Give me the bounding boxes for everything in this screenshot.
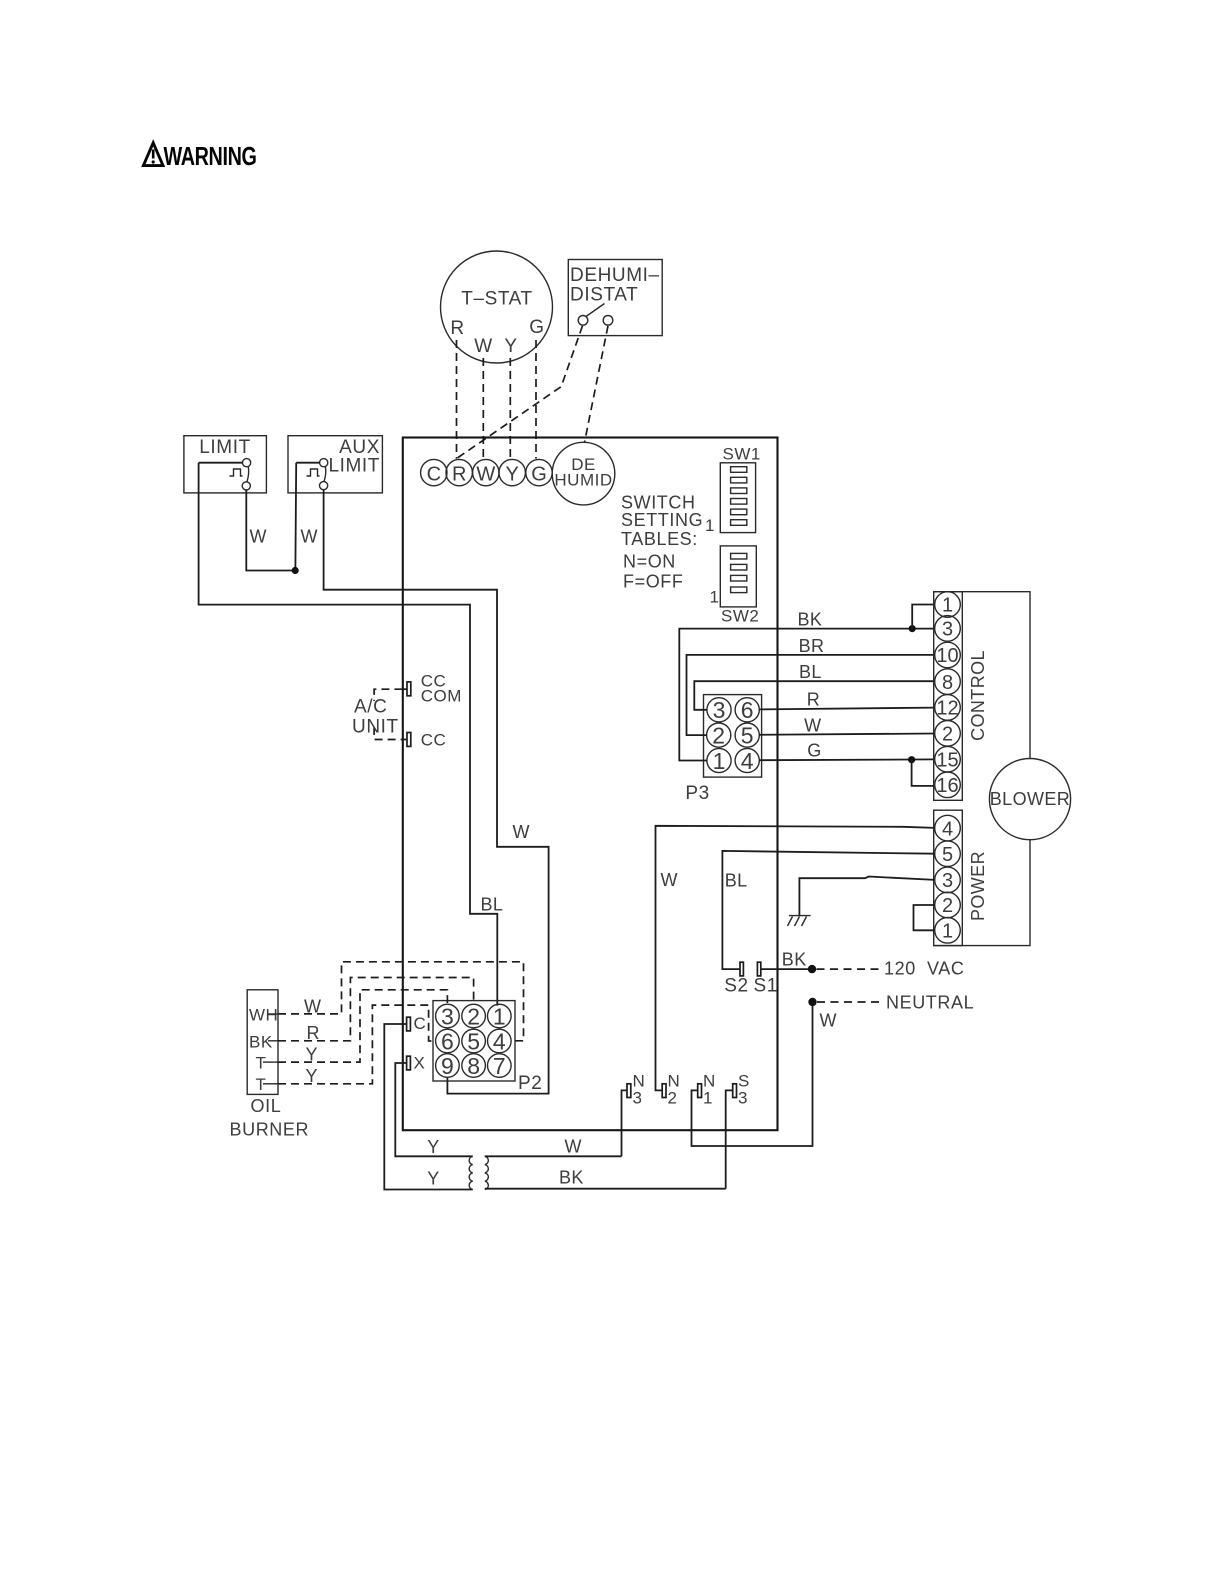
DE HUMID terminal [552,442,615,505]
svg-text:Y: Y [306,1066,318,1086]
thermostat T-STAT [441,251,553,363]
wire: T-STAT G to terminal G (dashed) [535,340,537,459]
svg-text:UNIT: UNIT [352,717,399,738]
terminal S1 [754,962,778,996]
svg-text:7: 7 [493,1053,506,1079]
switch SW1 [705,445,761,536]
svg-text:1: 1 [705,516,715,535]
wire BL: P3 pin 3 to CONTROL 8 [694,681,934,710]
svg-text:LIMIT: LIMIT [328,456,380,477]
wire WH-W: oil burner to P2 pin 4 (dashed) [278,962,524,1041]
svg-text:Y: Y [504,336,517,357]
svg-text:BR: BR [799,636,825,656]
wire: NEUTRAL node to terminal N1 [692,1006,813,1147]
wire R: P3 pin 6 to CONTROL 12 [759,708,934,710]
warning symbol [143,143,163,166]
svg-text:W: W [513,822,530,842]
wire: G junction to CONTROL 16 [912,760,935,786]
svg-text:BK: BK [782,949,807,969]
wire: BK junction to CONTROL 1 [912,605,935,629]
svg-text:BL: BL [481,895,504,915]
terminal strip POWER [934,810,988,945]
limit switch LIMIT [184,436,267,493]
terminal S2 [724,962,748,996]
terminal N2 [662,1072,680,1108]
switch SW2 [710,546,760,626]
svg-text:A/C: A/C [354,697,387,718]
svg-text:Y: Y [306,1045,318,1065]
svg-text:HUMID: HUMID [554,471,612,490]
svg-text:BL: BL [799,662,822,682]
svg-text:5: 5 [942,844,953,866]
wire BK: P3 pin 1 to CONTROL 3 [679,629,934,761]
transformer secondary winding [485,1156,489,1189]
svg-text:T–STAT: T–STAT [461,289,533,310]
wire: T-STAT W to terminal W (dashed) [482,358,484,459]
node NEUTRAL [808,998,816,1006]
terminal strip CONTROL [934,592,988,801]
wire: LIMIT upper contact down and right (W circuit) [199,463,498,1006]
svg-text:NEUTRAL: NEUTRAL [886,993,974,1013]
wire: terminal C to transformer primary bottom (Y) [384,1024,472,1190]
svg-text:WH: WH [249,1006,278,1025]
svg-text:BK: BK [798,609,823,629]
terminal W [473,459,499,485]
svg-text:BK: BK [559,1168,584,1188]
svg-text:S2: S2 [724,976,748,997]
svg-text:2: 2 [712,723,725,749]
aux limit switch AUX LIMIT [288,436,382,493]
svg-text:2: 2 [942,724,953,746]
terminal CC [403,731,446,750]
svg-text:G: G [531,463,547,485]
svg-text:8: 8 [467,1053,480,1079]
terminal S3 [726,1072,750,1189]
svg-text:DISTAT: DISTAT [570,285,638,306]
NEUTRAL dashed lead [817,1001,882,1003]
svg-text:W: W [474,336,493,357]
dehumidistat [568,260,662,336]
transformer primary winding [469,1156,473,1189]
svg-text:SETTING: SETTING [621,510,703,530]
terminal N1 [698,1072,716,1108]
wire: dehumidistat right contact to DE HUMID (dashed) [585,326,608,442]
svg-text:2: 2 [467,1003,480,1029]
svg-text:S1: S1 [754,976,778,997]
svg-text:C: C [414,1014,427,1033]
svg-text:BLOWER: BLOWER [990,789,1070,809]
svg-text:3: 3 [713,697,726,723]
svg-text:COM: COM [421,687,462,706]
wire: ground to POWER 3 [799,877,934,916]
svg-text:6: 6 [741,697,754,723]
wire: T-STAT R to terminal R (dashed) [456,340,458,459]
wire: terminal X to transformer primary top (Y) [395,1063,472,1156]
terminal C [421,459,447,485]
wire T-Y: oil burner to P2 pin 3 (dashed) [278,990,447,1062]
svg-text:R: R [452,463,466,485]
wire: W vertical to POWER 4 [656,826,935,1091]
svg-text:3: 3 [942,619,953,641]
svg-text:16: 16 [936,775,958,797]
svg-text:Y: Y [427,1169,439,1189]
svg-text:3: 3 [738,1089,748,1108]
svg-text:OIL: OIL [251,1096,282,1116]
terminal R [446,459,472,485]
label OIL BURNER [230,1096,310,1140]
wire: T-STAT Y to terminal Y (dashed) [509,358,511,459]
wire BK: transformer secondary bottom to S3 [485,1188,726,1190]
svg-text:W: W [804,716,821,736]
svg-text:W: W [250,526,267,546]
svg-text:1: 1 [942,921,953,943]
svg-text:4: 4 [741,748,754,774]
120 VAC dashed lead [817,968,882,970]
wire BR: P3 pin 2 to CONTROL 10 [687,655,935,735]
wire: LIMIT lower contact to junction (W) [246,490,292,571]
wire: AUX LIMIT lower contact to P2 pin 9 (W) [324,490,549,1094]
svg-text:4: 4 [493,1028,506,1054]
wire: dehumidistat left contact to terminal R (dashed) [457,326,583,459]
terminal G [526,459,552,485]
svg-text:W: W [565,1137,582,1157]
svg-text:15: 15 [936,749,958,771]
svg-text:SW1: SW1 [723,445,761,464]
connector P2 [433,1001,515,1081]
A/C unit dashed bracket [374,689,402,739]
svg-text:8: 8 [942,672,953,694]
terminal C [407,1014,427,1033]
svg-text:W: W [476,463,495,485]
terminal CC COM [403,672,462,706]
connector P3 [704,695,762,778]
svg-text:N=ON: N=ON [623,552,676,572]
svg-text:BL: BL [725,871,748,891]
A/C unit label [352,697,399,738]
svg-text:1: 1 [710,588,720,607]
svg-text:G: G [529,317,544,338]
svg-text:DEHUMI–: DEHUMI– [570,265,660,286]
svg-text:6: 6 [441,1028,454,1054]
svg-text:1: 1 [713,748,726,774]
svg-text:10: 10 [936,645,958,667]
svg-text:2: 2 [668,1089,678,1108]
svg-text:R: R [807,689,820,709]
svg-text:W: W [301,526,318,546]
svg-text:4: 4 [942,818,953,840]
wire: POWER 2 to POWER 1 jumper [914,905,935,930]
svg-text:P3: P3 [685,783,709,804]
svg-text:P2: P2 [518,1073,542,1094]
terminal Y [499,459,525,485]
svg-text:X: X [414,1054,426,1073]
wire: AUX LIMIT upper contact to junction (W) [294,463,297,567]
wire: BL vertical to POWER 5 [722,851,934,969]
svg-text:F=OFF: F=OFF [623,572,684,592]
svg-text:3: 3 [441,1003,454,1029]
svg-text:1: 1 [493,1003,506,1029]
wire G: P3 pin 4 to CONTROL 15 [759,758,934,761]
svg-text:T: T [256,1075,267,1094]
svg-text:120 VAC: 120 VAC [884,959,965,979]
ground [788,916,811,926]
svg-text:Y: Y [427,1137,439,1157]
furnace control unit box [403,438,778,1131]
svg-text:G: G [807,741,821,761]
svg-text:W: W [661,870,678,890]
svg-text:WARNING: WARNING [164,141,257,171]
terminal N3 [622,1072,646,1157]
svg-text:T: T [256,1053,267,1072]
svg-text:3: 3 [942,870,953,892]
svg-text:W: W [304,996,321,1016]
junction node on BK wire [909,625,916,632]
terminal X [407,1054,426,1073]
wire BK-R: oil burner to P2 pin 2 (dashed) [278,978,474,1041]
svg-text:C: C [427,463,441,485]
wire W: transformer secondary top to N3 [485,1155,622,1157]
svg-text:POWER: POWER [968,851,988,921]
svg-text:1: 1 [942,595,953,617]
svg-text:SW2: SW2 [721,607,759,626]
wire T-Y: oil burner to P2 pin 6 (dashed) [278,1005,434,1084]
svg-text:R: R [450,318,464,339]
blower motor BLOWER [989,759,1070,840]
svg-text:9: 9 [441,1053,454,1079]
switch setting tables note [621,493,703,592]
svg-text:3: 3 [633,1089,643,1108]
svg-text:5: 5 [467,1028,480,1054]
svg-text:CC: CC [421,731,447,750]
svg-text:CONTROL: CONTROL [968,650,988,741]
svg-text:R: R [307,1023,320,1043]
junction node W [292,567,299,574]
wire W: P3 pin 5 to CONTROL 2 [759,734,934,735]
svg-text:5: 5 [741,723,754,749]
svg-text:BK: BK [249,1032,273,1051]
wire BK: S1 to 120 VAC node [761,968,810,970]
svg-text:W: W [820,1011,837,1031]
control board outer box [934,592,1030,946]
svg-text:1: 1 [703,1089,713,1108]
svg-text:BURNER: BURNER [230,1120,310,1140]
oil burner [247,990,278,1095]
svg-text:2: 2 [942,895,953,917]
svg-text:TABLES:: TABLES: [621,529,698,549]
svg-text:Y: Y [506,463,519,485]
svg-text:12: 12 [936,698,958,720]
svg-text:LIMIT: LIMIT [199,437,251,458]
junction node on G wire [908,756,915,763]
node 120 VAC [808,965,816,973]
